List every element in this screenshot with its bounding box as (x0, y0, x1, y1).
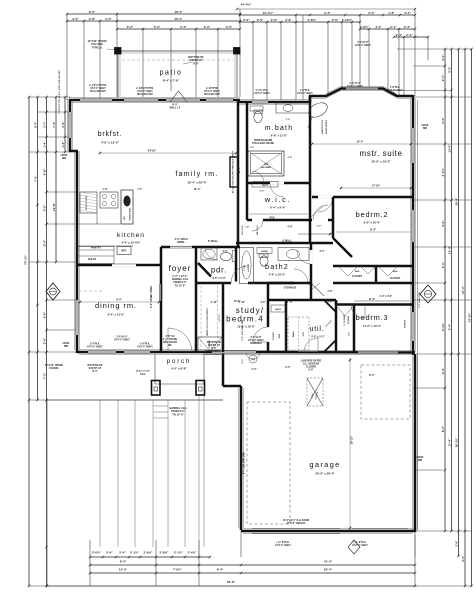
svg-text:3'-0": 3'-0" (349, 332, 351, 337)
svg-text:2- 2'8"x7'8"PTN.: 2- 2'8"x7'8"PTN. (89, 85, 107, 87)
svg-text:12'-0": 12'-0" (119, 568, 128, 572)
svg-text:AT 8'-0" HGHT.: AT 8'-0" HGHT. (297, 92, 313, 95)
svg-text:ALLOW FOR ELECTRIC FIREPLACE V: ALLOW FOR ELECTRIC FIREPLACE VERIFY (232, 150, 235, 193)
svg-text:AT 8'-0" HGHT.: AT 8'-0" HGHT. (90, 87, 106, 90)
svg-text:6'-8": 6'-8" (308, 369, 313, 372)
svg-text:8'-0": 8'-0" (193, 61, 199, 65)
kitchen ref box (117, 247, 131, 255)
svg-text:OPNG.: OPNG. (177, 241, 185, 244)
wall hall segment2 (309, 221, 312, 243)
svg-text:2'-6": 2'-6" (271, 18, 278, 22)
mbath toilet (254, 111, 262, 122)
door arc front entry (168, 328, 192, 352)
wall util top (268, 299, 336, 302)
gable vent family (170, 91, 187, 102)
svg-text:8'-4" x 7'-6": 8'-4" x 7'-6" (163, 79, 180, 83)
svg-text:patio: patio (160, 70, 183, 77)
svg-text:1'-8"PLK.: 1'-8"PLK. (300, 90, 311, 92)
door arc pdr (205, 247, 218, 260)
wall top main (behind patio) (117, 99, 240, 102)
left horizontal stubs (29, 96, 70, 98)
svg-text:1'-8½": 1'-8½" (360, 25, 370, 29)
svg-text:4'-0": 4'-0" (204, 25, 211, 29)
svg-text:2'-0": 2'-0" (105, 17, 112, 21)
svg-text:3'-4": 3'-4" (404, 11, 411, 15)
svg-text:26'-4": 26'-4" (324, 568, 333, 572)
wall left upper (69, 99, 72, 152)
svg-text:18'-4": 18'-4" (174, 10, 183, 14)
svg-text:RAISED BAR: RAISED BAR (129, 207, 132, 220)
svg-text:8'-0": 8'-0" (285, 366, 290, 369)
svg-text:9'-0" x 8'-8": 9'-0" x 8'-8" (171, 367, 187, 371)
util chamfer corners (324, 300, 336, 312)
svg-text:1'-8": 1'-8" (388, 11, 395, 15)
svg-text:5'-4": 5'-4" (42, 239, 46, 246)
dimension column left 5 (64, 97, 66, 152)
svg-text:6'-8" x 11'-0": 6'-8" x 11'-0" (271, 134, 288, 138)
svg-text:AT 8'-0" HGHT.: AT 8'-0" HGHT. (137, 90, 153, 93)
marker diamond left (46, 283, 60, 300)
door bath2 (294, 282, 308, 285)
svg-text:3'-0" CLR GAR. DIM.: 3'-0" CLR GAR. DIM. (241, 319, 244, 341)
svg-text:2'-8": 2'-8" (288, 157, 293, 159)
window dining left (75, 300, 78, 335)
svg-text:44'-4½": 44'-4½" (241, 3, 252, 7)
svg-text:19'-4": 19'-4" (193, 187, 201, 191)
svg-text:SHLVS: SHLVS (88, 258, 96, 261)
svg-text:3' TUB: 3' TUB (244, 264, 246, 271)
svg-text:26'-10": 26'-10" (454, 437, 458, 447)
svg-text:26'-10": 26'-10" (351, 435, 354, 444)
svg-text:2- 2'8"x7'8"PTN.: 2- 2'8"x7'8"PTN. (136, 88, 154, 90)
svg-text:2'-6": 2'-6" (332, 18, 339, 22)
front door opening (168, 350, 192, 352)
svg-text:4'-0" x 13'-2": 4'-0" x 13'-2" (101, 141, 120, 145)
svg-text:3'-4": 3'-4" (42, 337, 46, 344)
wall closet bedrm3 (353, 305, 356, 353)
svg-text:AT 8'-0" HGHT.: AT 8'-0" HGHT. (87, 345, 103, 348)
svg-text:4'-0": 4'-0" (223, 250, 228, 253)
wall mstr bay (310, 89, 413, 104)
walk joint lines (99, 400, 101, 547)
svg-text:74'-10": 74'-10" (467, 312, 471, 322)
patio post right (234, 48, 241, 55)
svg-text:AT 8'-0" HGHT.: AT 8'-0" HGHT. (352, 544, 368, 547)
svg-text:3'-4": 3'-4" (441, 367, 445, 374)
svg-text:29'-4": 29'-4" (454, 197, 458, 206)
svg-text:BIB: BIB (62, 157, 66, 160)
svg-text:mstr. suite: mstr. suite (359, 149, 402, 158)
dimension row bottom 4 (47, 585, 415, 587)
svg-text:REF.: REF. (121, 249, 127, 253)
bath2 toilet (260, 256, 268, 266)
svg-text:8'-4": 8'-4" (369, 374, 375, 377)
svg-text:RAS: RAS (355, 270, 360, 273)
svg-text:BR. CLO.: BR. CLO. (257, 225, 259, 235)
svg-text:SHAKY STYLE: SHAKY STYLE (321, 119, 324, 134)
svg-text:2'-6": 2'-6" (257, 18, 264, 22)
svg-text:SHOWER: SHOWER (261, 167, 271, 169)
svg-text:TAMMY STYLE DOOR VERIFY: TAMMY STYLE DOOR VERIFY (206, 307, 209, 336)
svg-text:SHVS: SHVS (275, 309, 281, 311)
wall wic bottom (247, 219, 312, 222)
svg-text:5'-0" CASED OPNG: 5'-0" CASED OPNG (150, 286, 153, 308)
door wic-hall (252, 219, 263, 222)
svg-text:3'-0"x5'-0": 3'-0"x5'-0" (357, 42, 368, 44)
bath2 vanity (278, 248, 309, 261)
svg-text:2'-1½": 2'-1½" (174, 551, 184, 555)
wall pdr right (235, 247, 238, 283)
svg-text:8'-0": 8'-0" (441, 425, 445, 432)
svg-text:4'-8": 4'-8" (328, 301, 333, 304)
svg-text:5'-0": 5'-0" (447, 66, 451, 73)
storage diag door (311, 283, 324, 296)
svg-text:6' WALL: 6' WALL (282, 240, 292, 243)
svg-text:CER: CER (264, 164, 269, 166)
dimension column left 2 (37, 97, 39, 400)
svg-text:24'-2" x 26'-4": 24'-2" x 26'-4" (315, 472, 335, 476)
svg-text:family rm.: family rm. (175, 171, 218, 178)
window family top 1 (124, 98, 158, 101)
svg-text:8'-10": 8'-10" (287, 302, 293, 304)
svg-text:( ) 1'-8"PLK.: ( ) 1'-8"PLK. (354, 542, 367, 544)
wall right (412, 95, 415, 355)
door arc util (304, 338, 318, 352)
svg-text:24'-10": 24'-10" (148, 149, 157, 153)
svg-text:74'-10": 74'-10" (24, 255, 28, 265)
svg-text:bath2: bath2 (265, 262, 289, 271)
wall hall-study top (196, 282, 236, 285)
svg-text:11'-0": 11'-0" (370, 229, 377, 232)
svg-text:2'-4": 2'-4" (406, 33, 413, 37)
kitchen range hatched (80, 192, 97, 213)
label attic access (307, 378, 323, 406)
svg-text:TO 12'-0": TO 12'-0" (175, 284, 187, 287)
svg-text:3'-0"x5'-0": 3'-0"x5'-0" (116, 337, 127, 339)
svg-text:3'-0½": 3'-0½" (441, 167, 445, 177)
kitchen counter (78, 223, 120, 225)
svg-text:12'-4½": 12'-4½" (263, 11, 274, 15)
svg-text:2'-1": 2'-1" (390, 25, 397, 29)
svg-text:EGRESS: EGRESS (405, 319, 407, 328)
wall garage bottom (241, 530, 415, 533)
svg-text:3'-0": 3'-0" (320, 251, 325, 253)
svg-text:TUB & ENCLOSURE: TUB & ENCLOSURE (252, 143, 275, 145)
door arc bedrm3 (351, 305, 365, 319)
svg-text:5'-8½": 5'-8½" (308, 18, 318, 22)
svg-text:DR.: DR. (168, 344, 172, 347)
wall closet band bottom (333, 282, 413, 285)
svg-text:7'-2": 7'-2" (52, 121, 56, 128)
svg-text:9'-2": 9'-2" (324, 11, 331, 15)
svg-text:2'-8½": 2'-8½" (160, 551, 170, 555)
svg-text:5'-0": 5'-0" (461, 555, 465, 562)
mstr dim line 1 (312, 143, 411, 145)
roof overhang line right (417, 100, 419, 530)
svg-text:DRY.: DRY. (303, 331, 305, 336)
svg-text:BIB: BIB (64, 345, 68, 348)
svg-text:2'-4": 2'-4" (454, 540, 458, 547)
svg-text:BIB: BIB (423, 127, 427, 130)
wall front main (77, 351, 223, 354)
dining dashed ceiling line (79, 290, 104, 292)
wall storage (268, 282, 311, 285)
svg-text:AT 8'-0" HGHT.: AT 8'-0" HGHT. (114, 338, 130, 341)
svg-text:5T WD VY HOOD: 5T WD VY HOOD (86, 195, 88, 210)
svg-text:3'-4": 3'-4" (404, 25, 411, 29)
svg-text:2'-0": 2'-0" (243, 18, 250, 22)
svg-text:BORDERS: BORDERS (250, 343, 262, 345)
kitchen island raised bar (121, 190, 133, 224)
svg-text:6'-0": 6'-0" (242, 359, 244, 364)
svg-text:2'-?": 2'-?" (42, 121, 46, 128)
wall mbath-wic divider (247, 182, 310, 185)
svg-text:11'-0": 11'-0" (369, 298, 375, 301)
svg-text:6'-0": 6'-0" (260, 191, 265, 193)
svg-text:LINEN: LINEN (261, 251, 268, 253)
svg-text:5'-4" x 5'-2": 5'-4" x 5'-2" (311, 336, 325, 339)
dimension column far-left 74'-10 (28, 97, 30, 586)
wall dining-kitchen (78, 264, 161, 267)
svg-text:1'-8"PLK.: 1'-8"PLK. (140, 344, 151, 346)
wall hall top y243 (310, 242, 333, 245)
dimension column right 1 (444, 49, 446, 531)
window family top 2 (166, 98, 200, 101)
wall left jog (69, 150, 78, 153)
svg-text:8'-0": 8'-0" (33, 121, 37, 128)
window study front (212, 350, 256, 353)
pdr sink (201, 248, 217, 260)
svg-text:15'-4" x 20'-4": 15'-4" x 20'-4" (187, 181, 207, 185)
wall stoop horizontal (223, 385, 241, 388)
dimension row top-right 3 (360, 28, 415, 30)
bath2 linen (257, 248, 272, 254)
dimension column left 4 (55, 97, 57, 262)
svg-text:BORDERS: BORDERS (208, 350, 220, 353)
svg-text:2- 2'8"x5'2"PTN. AT 8'-0" HGHT: 2- 2'8"x5'2"PTN. AT 8'-0" HGHT. MULLED U… (58, 69, 61, 114)
svg-text:2- 2'8"PTN.: 2- 2'8"PTN. (206, 88, 218, 90)
svg-text:DOOR VERIFY: DOOR VERIFY (326, 119, 328, 134)
dimension column right 5 (471, 49, 473, 586)
closet hall shelves (271, 305, 285, 312)
family dim line horizontal (100, 152, 236, 154)
wall bedrm2 top (312, 196, 413, 199)
svg-text:MULLED UNIT: MULLED UNIT (204, 94, 220, 96)
svg-text:CLG.: CLG. (140, 373, 146, 376)
svg-text:( ) 1'-8"PLK.: ( ) 1'-8"PLK. (277, 542, 290, 544)
svg-text:5'-4": 5'-4" (447, 323, 451, 330)
svg-text:5'-0": 5'-0" (180, 25, 187, 29)
dimension row top-right 4 (394, 36, 428, 38)
svg-text:dining rm.: dining rm. (95, 301, 137, 310)
svg-text:17'-10": 17'-10" (372, 184, 381, 188)
svg-text:w.i.c.: w.i.c. (264, 195, 291, 204)
mbath shower (248, 151, 284, 176)
bath2 tub (240, 248, 254, 284)
svg-text:2'-4": 2'-4" (61, 121, 65, 128)
svg-text:2'-0": 2'-0" (441, 74, 445, 81)
walkway slab line (47, 399, 223, 401)
svg-text:2'-2" x 3'-8": 2'-2" x 3'-8" (380, 296, 392, 298)
util washer dryer (288, 317, 309, 350)
kitchen cooktop (100, 192, 118, 208)
wall family-foyer arch (161, 246, 240, 249)
wall top-left wing (69, 99, 118, 102)
svg-text:TO RAS: TO RAS (347, 315, 350, 324)
wall study left (222, 283, 225, 352)
svg-text:7'-2": 7'-2" (33, 175, 37, 182)
svg-text:MULLED UNIT: MULLED UNIT (137, 94, 153, 96)
wall study right (267, 300, 270, 352)
svg-text:41'-0": 41'-0" (324, 560, 333, 564)
svg-text:1'-8"PLK.: 1'-8"PLK. (90, 344, 101, 346)
svg-text:5'-4": 5'-4" (441, 220, 445, 227)
dimension row top-right 1 (240, 14, 415, 16)
svg-text:3'-6" x 5'-0": 3'-6" x 5'-0" (212, 277, 226, 280)
family dim vertical (236, 115, 238, 240)
svg-text:7'-6½": 7'-6½" (173, 568, 183, 572)
svg-text:& SHWR: & SHWR (248, 264, 250, 272)
svg-text:16'-4": 16'-4" (174, 17, 183, 21)
garage dashed rect right (361, 365, 410, 419)
svg-text:m.bath: m.bath (265, 125, 294, 132)
svg-text:bedrm.3: bedrm.3 (356, 313, 389, 322)
dimension row bottom 3 (90, 572, 415, 574)
window left brkfst (68, 112, 71, 138)
door bedrm2 (318, 196, 333, 199)
svg-text:AT 8'-0" HGHT.: AT 8'-0" HGHT. (248, 339, 264, 342)
closet divider (375, 266, 378, 283)
wall foyer-dining divider (160, 265, 163, 352)
wall bedrm3 top (336, 303, 413, 306)
svg-text:2'-4": 2'-4" (368, 11, 375, 15)
svg-text:15'-0" x 19'-2": 15'-0" x 19'-2" (371, 160, 391, 164)
svg-text:pdr.: pdr. (211, 266, 227, 275)
mbath whirlpool tub (306, 100, 329, 120)
svg-text:4'-6": 4'-6" (42, 311, 46, 318)
svg-text:1'-10½": 1'-10½" (342, 18, 353, 22)
door mstr (313, 205, 328, 220)
svg-text:50'-8": 50'-8" (227, 580, 236, 584)
svg-text:SHVS: SHVS (262, 185, 268, 187)
garage dashed rect left (247, 402, 290, 524)
door hall-study (231, 282, 248, 285)
svg-text:10'-10": 10'-10" (219, 314, 221, 321)
svg-text:COLMS.: COLMS. (49, 367, 59, 370)
svg-text:CLOSET: CLOSET (390, 276, 401, 280)
bottom extension lines (240, 531, 242, 557)
svg-text:6' WALL: 6' WALL (208, 239, 219, 243)
svg-text:1'-4": 1'-4" (61, 141, 65, 148)
svg-text:1'-6": 1'-6" (102, 188, 107, 191)
opening dining-kitchen (112, 264, 136, 267)
svg-text:brkfst.: brkfst. (98, 131, 123, 138)
svg-text:PH: PH (251, 359, 255, 362)
window dining front 2 (124, 350, 150, 353)
svg-text:AT 8'-0" HGHT.: AT 8'-0" HGHT. (275, 544, 291, 547)
svg-text:10'-4" x 10'-0": 10'-4" x 10'-0" (237, 325, 255, 329)
svg-text:5'-10": 5'-10" (441, 322, 445, 331)
window bedrm3 right (411, 312, 414, 341)
svg-text:AT 8'-0" HEIGHT.: AT 8'-0" HEIGHT. (287, 522, 306, 525)
closet study (198, 337, 222, 351)
svg-text:4'-6": 4'-6" (42, 204, 46, 211)
svg-text:20'-4": 20'-4" (238, 166, 241, 174)
svg-text:3'-0"x6'-8": 3'-0"x6'-8" (250, 337, 261, 339)
svg-text:3'-0": 3'-0" (441, 54, 445, 61)
svg-text:util.: util. (310, 326, 325, 333)
door garage fire rated opening (298, 351, 318, 353)
wall bedrm2 closet diag (333, 238, 352, 257)
window bedrm2 right (411, 210, 414, 242)
svg-text:3'-6" x 12'-0½": 3'-6" x 12'-0½" (121, 241, 141, 245)
svg-text:9'-0" x 10'-0": 9'-0" x 10'-0" (364, 221, 381, 225)
svg-text:4'-1": 4'-1" (375, 25, 382, 29)
svg-text:(PREFAB) MARB: (PREFAB) MARB (254, 139, 273, 142)
wall garage left (240, 386, 243, 530)
svg-text:6'-4": 6'-4" (217, 568, 224, 572)
svg-text:9'-0" CLR GAR. DIM.: 9'-0" CLR GAR. DIM. (243, 452, 246, 475)
dimension row top-right 2 (240, 21, 360, 23)
svg-text:TO 12'-0": TO 12'-0" (172, 412, 184, 416)
svg-text:5'-2": 5'-2" (127, 25, 134, 29)
arch opening foyer (170, 246, 192, 249)
window mstr right (411, 128, 414, 163)
svg-text:2'-4½": 2'-4½" (188, 551, 198, 555)
porch outline (154, 354, 156, 384)
fireplace nook (230, 157, 238, 187)
window m.bath top (252, 100, 268, 103)
svg-text:CLOSET: CLOSET (273, 331, 275, 340)
svg-text:2'-0": 2'-0" (250, 147, 255, 149)
hall dashed barrel lines (200, 286, 202, 350)
svg-text:15'-4": 15'-4" (356, 140, 364, 144)
svg-text:2'-10": 2'-10" (211, 302, 217, 304)
wall mbath-family (237, 100, 240, 247)
wall bath2-wic top (236, 242, 311, 245)
mbath cabinet (250, 106, 263, 111)
porch post left (152, 381, 161, 396)
dimension row bottom 2 (90, 564, 415, 566)
garage interior dim line (349, 358, 351, 530)
svg-text:RAS: RAS (270, 217, 275, 220)
svg-text:bedrm.4: bedrm.4 (226, 315, 264, 324)
svg-text:5'-0": 5'-0" (441, 117, 445, 124)
door arc mbath (252, 171, 264, 183)
svg-text:PANTRY: PANTRY (91, 246, 102, 250)
svg-text:6'-8": 6'-8" (42, 168, 46, 175)
svg-text:AT 8'-0" HGHT.: AT 8'-0" HGHT. (387, 89, 403, 92)
stoop arch light (246, 353, 260, 359)
dimension column right 3 (458, 49, 460, 556)
door wic (270, 182, 284, 185)
svg-text:1'-4": 1'-4" (42, 141, 46, 148)
svg-text:2'-4": 2'-4" (106, 551, 113, 555)
bedrm2 dim (336, 231, 411, 233)
svg-text:3'-6": 3'-6" (261, 302, 266, 304)
walk steps (153, 405, 168, 407)
window dining front 1 (88, 350, 116, 353)
svg-text:2'-6": 2'-6" (285, 18, 292, 22)
svg-text:RAS: RAS (278, 333, 281, 338)
window family top 3 (206, 98, 233, 101)
svg-text:4'-0": 4'-0" (251, 368, 256, 371)
svg-text:2'-1½": 2'-1½" (130, 551, 140, 555)
patio post left (115, 48, 122, 55)
svg-text:AT 8'-0" HGHT.: AT 8'-0" HGHT. (137, 345, 153, 348)
dimension column left 3 (46, 97, 48, 586)
svg-text:7'-0": 7'-0" (42, 372, 46, 379)
